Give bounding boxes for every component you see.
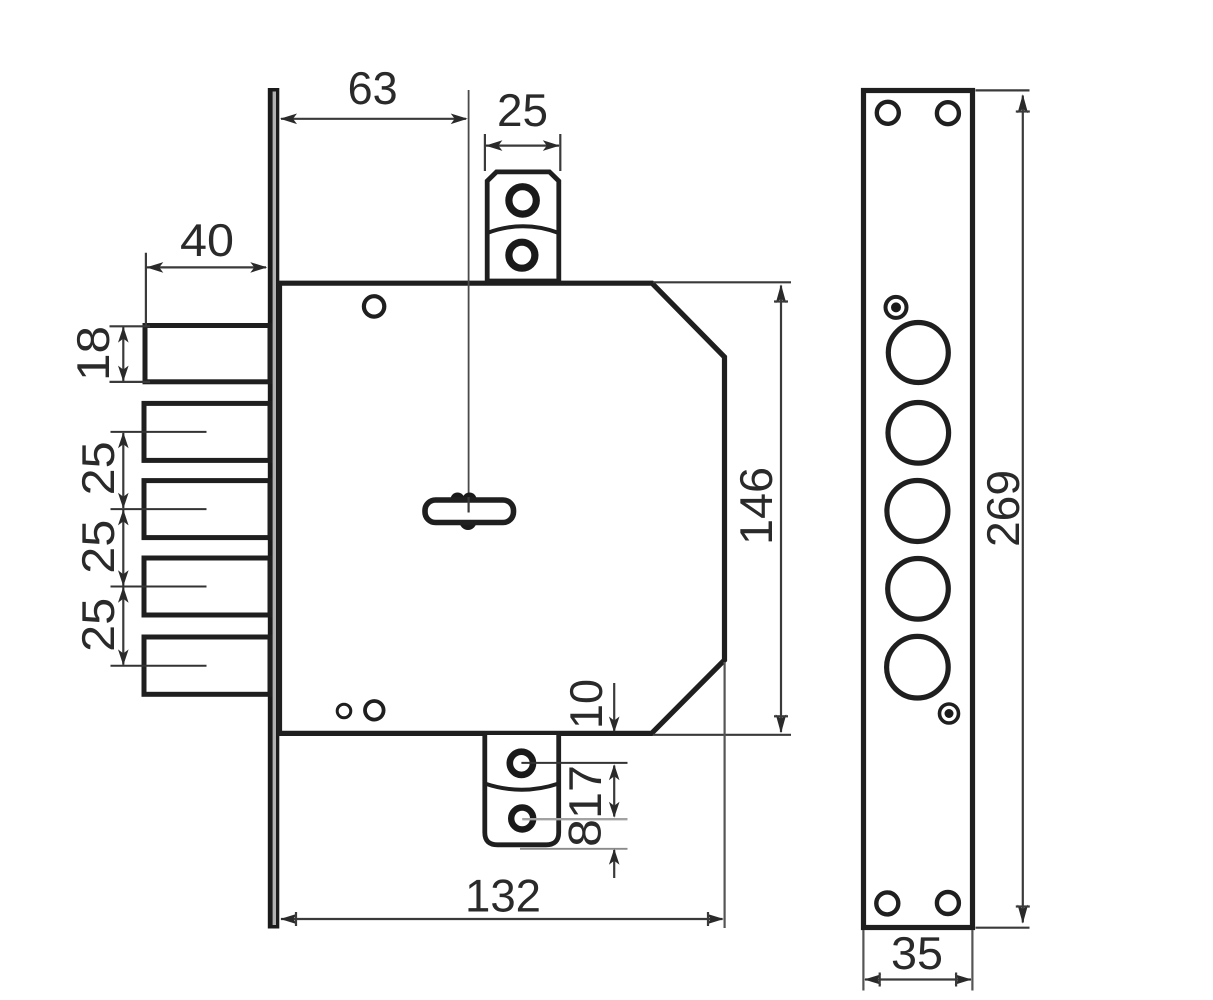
svg-text:35: 35 [891, 927, 943, 979]
faceplate edge bar [268, 88, 280, 929]
body hole bottom-left small [337, 704, 351, 718]
bolt 3 [144, 481, 270, 538]
dim 18 [110, 326, 151, 382]
block bottom ext line [520, 848, 628, 850]
svg-text:146: 146 [730, 467, 782, 545]
bolt 4 [144, 558, 270, 615]
fixing screw upper [886, 297, 907, 318]
circle center line ext bottom block upper [521, 762, 627, 764]
dim 269 [976, 90, 1030, 927]
svg-text:8: 8 [559, 819, 611, 847]
bolt 1 latch [145, 326, 270, 382]
body hole top-left [364, 296, 384, 316]
top latch block [487, 172, 559, 281]
dim 40 [146, 253, 267, 326]
bolt hole 5 [887, 636, 949, 698]
screw hole top-left [877, 102, 899, 124]
dim 63 [280, 114, 468, 125]
svg-text:25: 25 [72, 598, 124, 652]
dim 132 [280, 662, 724, 928]
bolt 2 [144, 403, 270, 460]
dim 25 left b [118, 509, 129, 586]
body hole bottom-left large [365, 701, 384, 720]
svg-text:269: 269 [977, 470, 1029, 547]
bolt hole 1 [888, 323, 948, 383]
lock body outline [280, 283, 725, 733]
dim 25 left c [118, 587, 129, 666]
faceplate front view [864, 91, 973, 928]
screw hole top-right [937, 102, 959, 124]
svg-text:25: 25 [497, 84, 548, 136]
svg-text:40: 40 [180, 214, 234, 266]
bottom block [485, 735, 559, 845]
svg-text:25: 25 [72, 441, 124, 495]
screw hole bottom-left [876, 892, 898, 914]
circle center line ext bottom block lower (gray) [522, 818, 627, 820]
bolt hole 3 [887, 481, 948, 542]
svg-text:132: 132 [465, 870, 541, 922]
svg-text:18: 18 [67, 326, 119, 381]
fixing screw lower [940, 704, 959, 723]
dim 8 [609, 849, 620, 878]
dim 25 top [485, 134, 560, 171]
dim 10 [609, 683, 620, 733]
screw hole bottom-right [937, 892, 959, 914]
dim 35 [863, 930, 972, 991]
keyhole center line [468, 90, 470, 512]
faceplate bar highlight core [273, 92, 276, 926]
dim 17 [609, 764, 620, 818]
bolt center lines [111, 431, 207, 433]
svg-text:10: 10 [560, 679, 612, 729]
bolt 5 [144, 637, 270, 694]
faceplate side view bar [268, 88, 280, 929]
svg-text:25: 25 [72, 520, 124, 574]
bolt hole 2 [888, 403, 949, 464]
keyhole [425, 493, 514, 531]
dim 25 left a [118, 432, 129, 509]
svg-text:17: 17 [559, 765, 611, 819]
dim 146 [653, 282, 791, 735]
bolt hole 4 [888, 559, 949, 620]
svg-text:63: 63 [348, 62, 398, 114]
